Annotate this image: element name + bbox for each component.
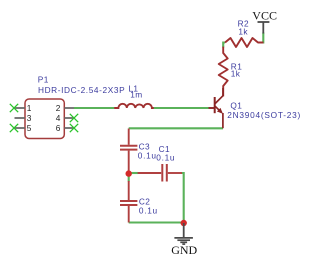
wire Q1 emitter bottom return <box>129 127 223 129</box>
Q1 base bar <box>214 97 216 113</box>
P1 pin 3 <box>15 117 26 119</box>
no-connect X pin4 <box>70 114 78 122</box>
no-connect X pin5 <box>10 124 18 132</box>
svg-text:1k: 1k <box>238 27 248 37</box>
wire node A down to C2 <box>128 173 130 182</box>
svg-text:VCC: VCC <box>252 9 277 23</box>
capacitor C1 <box>138 164 182 182</box>
svg-text:1k: 1k <box>231 68 241 78</box>
wire C2 bottom to node B <box>129 221 184 223</box>
P1 pin 6 <box>64 127 74 129</box>
wire pin2 to L1 <box>74 107 114 109</box>
resistor R2 <box>225 38 263 47</box>
svg-text:5: 5 <box>27 123 32 133</box>
connector P1 body <box>25 99 64 139</box>
no-connect X pin6 <box>70 124 78 132</box>
Q1 emitter lead <box>222 113 224 128</box>
svg-text:3: 3 <box>27 113 32 123</box>
capacitor C3 <box>120 129 137 172</box>
P1 pin 1 <box>15 107 26 109</box>
svg-text:0.1u: 0.1u <box>138 151 157 161</box>
ground symbol <box>174 223 193 244</box>
svg-text:4: 4 <box>56 113 61 123</box>
junction node B <box>181 220 187 226</box>
inductor L1 <box>114 104 154 108</box>
transistor Q1 <box>209 88 224 128</box>
Q1 emitter diagonal <box>215 106 222 112</box>
svg-text:0.1u: 0.1u <box>139 206 158 216</box>
svg-text:P1: P1 <box>38 75 49 85</box>
capacitor C2 <box>120 181 137 223</box>
P1 pin 4 <box>64 117 74 119</box>
P1 pin 5 <box>15 127 26 129</box>
P1 pin 2 <box>64 107 74 109</box>
svg-text:2N3904(SOT-23): 2N3904(SOT-23) <box>227 110 301 120</box>
svg-text:0.1u: 0.1u <box>156 152 175 162</box>
svg-text:1: 1 <box>27 103 32 113</box>
Q1 emitter arrow <box>217 108 223 114</box>
no-connect X pin1 <box>10 104 18 112</box>
svg-text:GND: GND <box>171 243 197 257</box>
wire L1 to Q1 base <box>154 107 209 109</box>
svg-text:1m: 1m <box>130 90 142 100</box>
wire node A to C1 left <box>129 172 138 174</box>
svg-text:2: 2 <box>56 103 61 113</box>
svg-text:6: 6 <box>56 123 61 133</box>
VCC symbol <box>258 22 270 34</box>
wire R2 left to R1 top elbow <box>223 43 225 48</box>
junction node A <box>126 170 132 176</box>
svg-text:HDR-IDC-2.54-2X3P: HDR-IDC-2.54-2X3P <box>38 85 125 95</box>
wire R2 right to VCC <box>262 33 264 44</box>
Q1 collector diagonal <box>215 88 223 104</box>
resistor R1 <box>219 47 228 97</box>
Q1 base lead <box>209 107 215 109</box>
wire C1 right to node B corner <box>182 173 184 222</box>
